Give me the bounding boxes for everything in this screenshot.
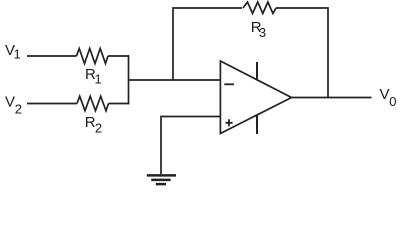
svg-text:V1: V1 <box>5 42 21 62</box>
resistor R2 <box>77 96 109 111</box>
wire non-inverting input to ground <box>161 117 220 175</box>
op-amp U1 non-inverting input plus sign <box>226 119 233 126</box>
op-amp U1 power pin tick top <box>256 62 258 81</box>
svg-text:V0: V0 <box>380 86 397 109</box>
wire V1 to R1 <box>27 55 77 57</box>
svg-text:R2: R2 <box>85 114 102 135</box>
node A junction bar <box>128 55 130 104</box>
op-amp U1 power pin tick bottom <box>256 115 258 135</box>
wire feedback top right and down to output <box>276 8 328 98</box>
op-amp U1 inverting input minus sign <box>224 83 234 85</box>
resistor R3 <box>243 2 276 14</box>
wire feedback left vertical to top <box>173 8 242 80</box>
svg-text:R3: R3 <box>251 19 266 40</box>
wire R1 to junction node A <box>108 55 129 57</box>
resistor R1 <box>77 49 109 64</box>
svg-text:V2: V2 <box>5 94 22 117</box>
wire node A to op-amp inverting input <box>129 79 221 81</box>
op-amp U1 triangle <box>220 61 291 134</box>
svg-text:R1: R1 <box>85 66 102 86</box>
wire V2 to R2 <box>27 103 77 105</box>
wire op-amp output to V0 <box>292 97 372 99</box>
wire R2 to junction node A <box>109 103 130 105</box>
ground <box>147 175 176 184</box>
